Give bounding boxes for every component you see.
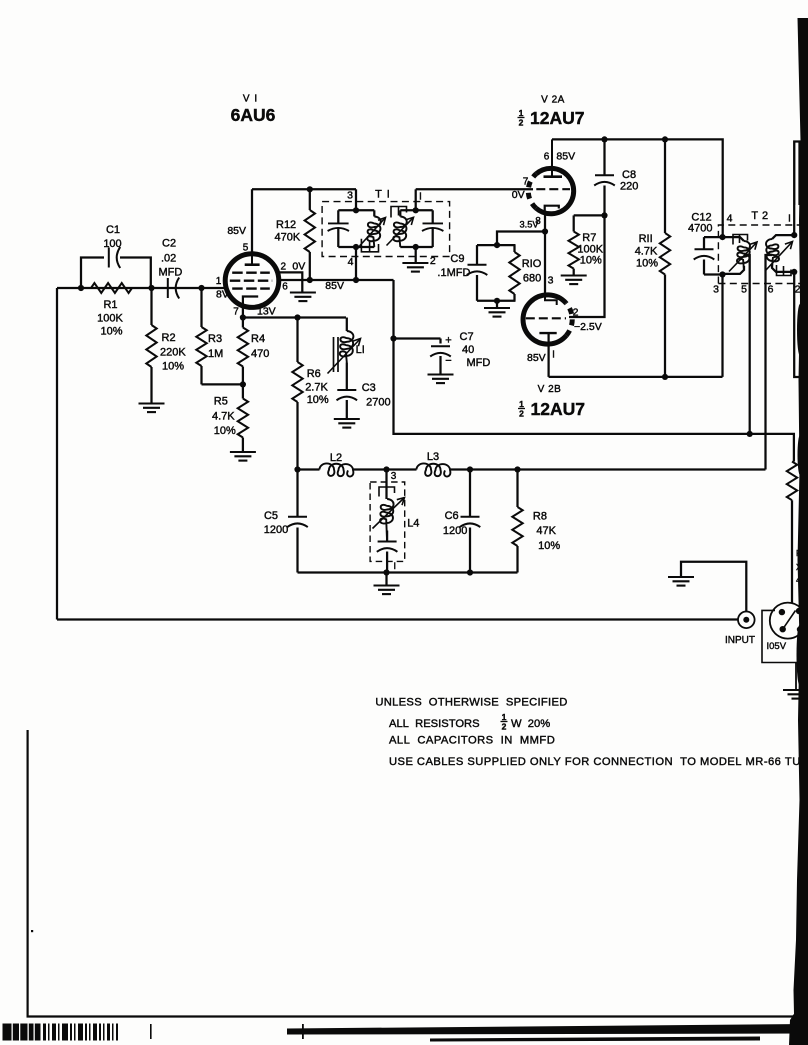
scan mark thin line 2	[302, 1024, 304, 1039]
svg-text:85V: 85V	[556, 151, 575, 163]
wire R10 network bottom bar	[477, 300, 516, 302]
svg-text:3: 3	[548, 275, 554, 287]
T1 secondary loop	[400, 209, 432, 211]
node R2 top junction	[148, 285, 154, 291]
node R6 top junction	[294, 314, 300, 320]
svg-text:85V: 85V	[227, 225, 246, 237]
svg-text:USE CABLES SUPPLIED ONLY FOR C: USE CABLES SUPPLIED ONLY FOR CONNECTION …	[389, 756, 808, 768]
svg-text:ALL CAPACITORS IN MMFD: ALL CAPACITORS IN MMFD	[389, 735, 555, 747]
inductor L4 dashed box	[370, 482, 405, 561]
capacitor C5	[288, 516, 307, 518]
capacitor C12	[695, 248, 714, 250]
svg-text:1200: 1200	[264, 524, 288, 536]
ground below C7	[428, 373, 454, 375]
svg-text:3: 3	[347, 190, 353, 202]
svg-text:I: I	[393, 561, 396, 571]
svg-text:LI: LI	[356, 344, 365, 356]
tube V2A cathode	[545, 206, 559, 214]
105V pins	[779, 609, 785, 615]
capacitor C7 electrolytic	[431, 345, 450, 347]
inductor L2	[320, 463, 354, 476]
node T1 pin2 node	[413, 244, 419, 250]
svg-text:T 2: T 2	[751, 210, 768, 222]
svg-text:C12: C12	[691, 211, 711, 223]
wire T1 pin2 ground lead	[415, 247, 417, 263]
wire R7 top bar	[574, 214, 605, 216]
svg-text:470K: 470K	[275, 232, 301, 244]
node T1 pin4 rail junction	[353, 277, 359, 283]
tube V2A envelope solid arc	[536, 168, 574, 213]
svg-text:4.7K: 4.7K	[635, 246, 658, 258]
svg-text:R7: R7	[582, 232, 596, 244]
wire network ground lead	[496, 301, 498, 308]
node R12 bottom junction	[307, 277, 313, 283]
svg-text:I05V: I05V	[767, 641, 787, 652]
svg-text:C8: C8	[622, 169, 636, 181]
wire L2L3 rail segments	[298, 468, 320, 470]
wire L4 ground lead	[385, 573, 387, 586]
svg-text:10%: 10%	[307, 394, 329, 406]
ground below 105V	[783, 689, 808, 691]
svg-text:7: 7	[233, 307, 239, 318]
wire 0V grid wire to V2A pin7	[416, 188, 533, 190]
scan speck	[31, 930, 33, 932]
wire L1 top lead	[346, 318, 348, 332]
wire V2A top rail	[552, 139, 723, 237]
svg-text:2: 2	[795, 284, 801, 296]
svg-text:C7: C7	[460, 331, 474, 343]
tube V2B envelope solid arc	[523, 295, 566, 344]
wire C12 top bar	[704, 236, 723, 238]
svg-text:C1: C1	[106, 224, 120, 236]
svg-text:0V: 0V	[292, 261, 305, 273]
svg-text:1: 1	[216, 276, 222, 287]
inductor L1 coil	[340, 331, 354, 363]
scan bar bulge marks	[797, 304, 803, 356]
wire top rail V1 pin5 to T1 pin3	[252, 188, 356, 190]
svg-text:R1: R1	[103, 299, 117, 311]
wire bottom long horizontal to INPUT jack	[57, 618, 738, 620]
wire C3 ground lead	[346, 400, 348, 419]
resistor R5	[238, 399, 248, 438]
svg-text:C3: C3	[362, 382, 376, 394]
capacitor C6	[461, 516, 480, 518]
wire R10 leads	[513, 245, 515, 252]
svg-text:6: 6	[282, 282, 288, 293]
ground below R2	[139, 402, 165, 404]
tube V2B grid dashed	[526, 317, 566, 319]
105V key line	[783, 611, 796, 630]
capacitor C3	[337, 389, 356, 391]
svg-text:4.7K: 4.7K	[212, 411, 235, 423]
T1 secondary core	[391, 207, 407, 218]
wire V2A pin8 lead	[544, 213, 546, 232]
svg-text:RIO: RIO	[522, 258, 542, 270]
svg-text:4700: 4700	[688, 223, 712, 235]
svg-text:2: 2	[519, 118, 524, 128]
wire V1 pin5 lead	[251, 189, 253, 254]
node R1 left junction	[78, 285, 84, 291]
node V1 pin7 junction	[240, 314, 246, 320]
wire R5 leads	[242, 384, 244, 398]
svg-text:10%: 10%	[214, 425, 236, 437]
scan black bar right edge	[789, 18, 808, 1045]
svg-text:10%: 10%	[538, 540, 560, 552]
scan mark thin line 1	[150, 1024, 152, 1039]
svg-text:7: 7	[523, 177, 529, 188]
svg-text:10%: 10%	[100, 326, 122, 338]
ground below L4	[374, 584, 400, 586]
L1 core bars	[333, 337, 335, 372]
wire R12 leads	[309, 189, 311, 210]
T1 secondary coil	[393, 217, 406, 248]
wire R6 leads	[296, 318, 298, 363]
svg-text:220K: 220K	[160, 347, 186, 359]
svg-text:UNLESS OTHERWISE SPECIFIED: UNLESS OTHERWISE SPECIFIED	[375, 697, 567, 709]
svg-text:L3: L3	[427, 451, 439, 463]
wire T1 pin1 lead up	[415, 189, 417, 210]
T1 primary coil	[367, 217, 380, 248]
tube V2B grid hook	[545, 295, 557, 305]
svg-text:R3: R3	[208, 333, 222, 345]
svg-text:ALL RESISTORS: ALL RESISTORS	[389, 718, 480, 730]
node C8 top junction	[601, 136, 607, 142]
wire C5 leads	[296, 470, 298, 517]
transformer T2 dashed box	[718, 225, 808, 284]
T1 secondary arrow	[387, 217, 414, 245]
scan barcode bottom left	[3, 1024, 41, 1041]
T2 primary core	[733, 235, 748, 245]
wire 105V to RX resistor	[791, 500, 793, 603]
svg-text:680: 680	[523, 273, 541, 285]
svg-text:C2: C2	[162, 238, 176, 250]
svg-text:C6: C6	[445, 510, 459, 522]
svg-text:4: 4	[727, 213, 733, 225]
svg-text:.1MFD: .1MFD	[437, 267, 470, 279]
wire T1 pin4 lead	[355, 247, 357, 280]
svg-text:R8: R8	[533, 511, 547, 523]
wire R3 branch	[200, 288, 202, 327]
connector INPUT jack	[738, 612, 755, 629]
tube V2B cathode	[539, 332, 556, 334]
node R8 top junction	[514, 466, 520, 472]
wire C6 leads	[469, 470, 471, 517]
node V2A pin8 junction	[542, 228, 548, 234]
node R6 bottom junction	[294, 466, 300, 472]
node L4 bottom junction	[383, 569, 389, 575]
wire INPUT shield ground	[681, 562, 746, 612]
tube V1 envelope	[225, 254, 279, 308]
svg-text:2: 2	[281, 261, 287, 272]
svg-text:3: 3	[391, 471, 397, 482]
resistor R8	[512, 507, 522, 546]
svg-text:W 20%: W 20%	[511, 718, 550, 730]
svg-text:47K: 47K	[536, 525, 556, 537]
svg-text:10%: 10%	[580, 255, 602, 267]
page border top right fragment	[794, 142, 796, 206]
svg-text:MFD: MFD	[159, 267, 183, 279]
svg-text:−: −	[445, 355, 451, 367]
ground below R5	[230, 451, 256, 453]
svg-text:4: 4	[348, 256, 354, 268]
wire pin8 to R10C9 network	[497, 232, 545, 246]
node T2 pin4	[719, 234, 725, 240]
svg-text:2: 2	[502, 722, 507, 732]
svg-text:10%: 10%	[162, 361, 184, 373]
svg-text:470: 470	[251, 348, 269, 360]
svg-text:R2: R2	[162, 332, 176, 344]
wire C7 top bar	[394, 337, 441, 339]
wire 85V rail down and right	[394, 280, 794, 462]
svg-text:RII: RII	[639, 233, 653, 245]
node R10 network top junction	[494, 242, 500, 248]
svg-text:13V: 13V	[257, 306, 276, 318]
power connector 105V circle	[770, 603, 806, 639]
power connector 105V box	[762, 610, 808, 662]
svg-text:L2: L2	[330, 452, 342, 464]
capacitor L4 internal cap	[378, 541, 397, 543]
wire R4 leads	[242, 318, 244, 328]
tube V2A plate	[551, 139, 553, 176]
node R10 network bottom junction	[494, 298, 500, 304]
svg-text:R4: R4	[251, 333, 265, 345]
T2 secondary loop	[772, 235, 794, 239]
svg-text:12AU7: 12AU7	[530, 108, 584, 128]
node T1 pin3	[353, 207, 359, 213]
wire R2 branch	[150, 288, 152, 325]
page border left/bottom	[28, 730, 795, 1017]
T2 primary arrow	[729, 242, 757, 272]
inductor L4 coil	[380, 499, 393, 542]
T2 secondary coil	[766, 239, 779, 268]
wire V1 pin2	[279, 272, 303, 292]
wire V2B cathode rail	[549, 376, 723, 378]
node T1 pin4	[353, 244, 359, 250]
svg-text:C9: C9	[450, 253, 464, 265]
svg-text:V 2B: V 2B	[538, 384, 562, 395]
svg-text:T I: T I	[375, 189, 391, 201]
svg-text:+: +	[445, 335, 451, 347]
svg-text:MFD: MFD	[467, 357, 491, 369]
wire R7 leads	[573, 215, 575, 231]
svg-text:I: I	[552, 350, 555, 361]
svg-text:V I: V I	[243, 94, 258, 105]
svg-text:100: 100	[103, 238, 121, 250]
resistor R1	[91, 283, 132, 293]
node C6 top junction	[467, 466, 473, 472]
svg-text:L4: L4	[407, 517, 419, 529]
svg-text:100K: 100K	[97, 313, 123, 325]
svg-text:5: 5	[243, 243, 249, 254]
svg-text:6AU6: 6AU6	[231, 105, 276, 125]
capacitor C8	[595, 174, 614, 176]
svg-text:1: 1	[519, 108, 524, 118]
wire R10 network top bar	[477, 244, 516, 246]
svg-text:1M: 1M	[208, 348, 223, 360]
svg-text:220: 220	[620, 181, 638, 193]
svg-text:I: I	[788, 213, 791, 225]
resistor R11	[660, 233, 670, 275]
wire L4 cap to bottom	[386, 552, 388, 573]
capacitor C9	[468, 264, 487, 266]
svg-text:V 2A: V 2A	[541, 95, 565, 106]
svg-text:1: 1	[502, 712, 507, 722]
wire C1 bypass loop	[81, 258, 104, 289]
resistor R4	[238, 328, 248, 367]
L4 core bracket	[379, 487, 395, 497]
tube V2A envelope dashed arc	[528, 174, 536, 208]
wire T2 pin5 tap	[744, 255, 750, 434]
tube V2B envelope dashed arc	[566, 303, 572, 335]
svg-text:8V: 8V	[216, 289, 229, 301]
node T2 pin5 rail junction	[747, 431, 753, 437]
ground at V1 pin2	[290, 291, 316, 293]
wire T2 pin2 lead down	[794, 272, 800, 377]
svg-text:.02: .02	[161, 253, 176, 265]
inductor L3	[417, 463, 451, 476]
node C7 junction	[390, 335, 396, 341]
svg-text:−2.5V: −2.5V	[574, 321, 602, 333]
svg-text:85V: 85V	[527, 352, 546, 364]
ground below R10 network	[484, 307, 510, 309]
svg-text:1200: 1200	[443, 525, 467, 537]
node R4 R5 junction	[240, 381, 246, 387]
wire L4 coil to cap	[386, 531, 388, 542]
svg-text:3.5V: 3.5V	[520, 220, 540, 230]
T1 secondary trimmer cap	[423, 222, 444, 224]
wire filter bottom rail	[298, 571, 518, 573]
svg-text:6: 6	[544, 152, 550, 163]
svg-text:10%: 10%	[636, 258, 658, 270]
svg-text:85V: 85V	[325, 280, 344, 292]
wire L1 to C3	[346, 363, 348, 390]
resistor R3	[196, 327, 206, 366]
resistor R12	[305, 210, 315, 252]
node R11 bottom junction	[662, 374, 668, 380]
capacitor C2	[167, 278, 169, 298]
tube V2A grid dashed	[536, 188, 570, 190]
wire T2 pin6 tap	[766, 255, 773, 470]
resistor R6	[292, 362, 302, 402]
node R12 top junction	[307, 186, 313, 192]
svg-text:40: 40	[462, 344, 474, 356]
resistor R2	[146, 325, 156, 367]
wire C9 leads	[476, 245, 478, 264]
T2 secondary core	[777, 265, 792, 276]
wire C12 bottom bar	[704, 273, 723, 275]
svg-text:2: 2	[573, 307, 579, 319]
capacitor C1	[108, 248, 110, 268]
transformer T1 dashed box	[322, 202, 450, 257]
wire pin8 down to V2B grid	[544, 232, 546, 295]
svg-text:5: 5	[741, 284, 747, 296]
wire R8 leads	[516, 470, 518, 508]
wire main grid line V1 pin1	[57, 287, 225, 289]
wire T1 pin3 lead	[355, 189, 357, 210]
T2 primary loop	[723, 237, 745, 241]
resistor R10	[509, 252, 519, 294]
node C6 bottom junction	[467, 569, 473, 575]
svg-text:2700: 2700	[366, 397, 390, 409]
node V1 pin1 junction	[198, 285, 204, 291]
tube V1 grids dashed	[230, 273, 272, 289]
T1 primary core	[361, 239, 378, 252]
svg-text:2.7K: 2.7K	[305, 382, 328, 394]
node T2 pin1	[791, 232, 797, 238]
resistor RX right edge	[787, 462, 797, 501]
T1 primary trimmer cap	[328, 222, 349, 224]
svg-text:6: 6	[768, 284, 774, 296]
svg-text:I: I	[419, 191, 422, 203]
svg-text:C5: C5	[264, 510, 278, 522]
node T1 pin1	[413, 207, 419, 213]
wire V1 pin7 lead	[242, 307, 244, 318]
node T2 pin3	[719, 271, 725, 277]
wire C8 leads	[603, 139, 605, 174]
resistor R7	[569, 232, 579, 269]
wire V2B pin1 lead	[547, 333, 549, 377]
node R11 top junction	[662, 136, 668, 142]
wire left long vertical from R1 node down	[56, 288, 58, 620]
wire 13V rail	[243, 316, 346, 318]
tube V1 plate	[245, 263, 260, 266]
ground below R7	[561, 274, 587, 276]
wire V1 pin6 85V rail	[279, 279, 394, 281]
svg-text:0V: 0V	[512, 189, 525, 201]
wire V2B plate to C8 node	[571, 215, 605, 317]
svg-text:2: 2	[519, 409, 524, 419]
svg-text:R5: R5	[214, 396, 228, 408]
ground below C3	[334, 418, 360, 420]
wire C7 leads	[439, 339, 441, 344]
scan smear bar bottom	[287, 1024, 808, 1035]
L1 arrow	[328, 339, 361, 374]
node C8 bottom junction	[601, 212, 607, 218]
ground T1 pin2	[402, 262, 428, 264]
ground INPUT shield	[668, 576, 694, 578]
T1 primary arrow	[360, 218, 386, 247]
tube V1 cathode	[243, 297, 258, 307]
svg-text:1: 1	[519, 399, 524, 409]
svg-text:INPUT: INPUT	[725, 635, 755, 646]
svg-text:R6: R6	[307, 368, 321, 380]
T2 primary coil	[737, 241, 750, 270]
T1 primary loop	[338, 209, 374, 211]
T2 secondary arrow	[766, 242, 793, 271]
L4 arrow	[373, 498, 405, 529]
wire V2B pin2 stub	[569, 316, 571, 318]
svg-text:2: 2	[430, 255, 436, 267]
wire T2 pin1 lead up	[794, 142, 799, 236]
wire R11 leads	[664, 139, 666, 233]
wire L4 top lead	[385, 470, 387, 500]
wire C12 leads	[703, 237, 705, 249]
svg-text:3: 3	[713, 284, 719, 296]
node T2 pin2	[791, 269, 797, 275]
svg-text:12AU7: 12AU7	[531, 399, 585, 419]
node L4 top junction	[383, 466, 389, 472]
svg-text:R12: R12	[276, 219, 296, 231]
